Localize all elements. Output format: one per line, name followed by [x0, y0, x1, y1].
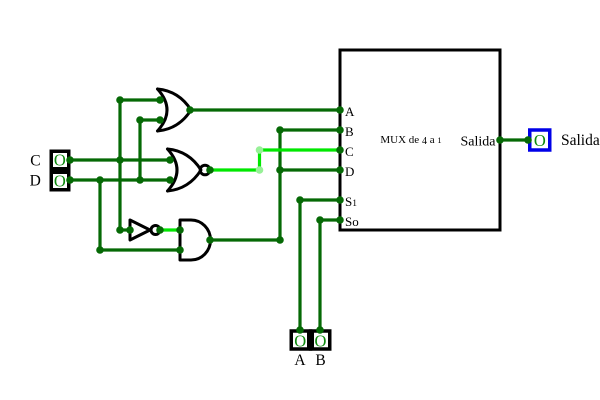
- svg-text:D: D: [30, 172, 41, 189]
- svg-text:O: O: [54, 171, 66, 190]
- svg-text:O: O: [534, 131, 546, 150]
- svg-text:O: O: [314, 331, 326, 350]
- svg-text:So: So: [345, 214, 359, 229]
- svg-text:C: C: [30, 152, 40, 169]
- svg-text:MUX de 4 a 1: MUX de 4 a 1: [380, 134, 441, 147]
- svg-text:B: B: [315, 352, 325, 369]
- svg-text:A: A: [345, 104, 355, 119]
- svg-text:B: B: [345, 124, 354, 139]
- svg-text:C: C: [345, 144, 354, 159]
- svg-text:O: O: [54, 150, 66, 169]
- svg-text:D: D: [345, 164, 354, 179]
- svg-text:Salida: Salida: [561, 132, 600, 149]
- svg-text:Salida: Salida: [461, 135, 497, 150]
- svg-text:A: A: [294, 352, 306, 369]
- svg-text:O: O: [294, 331, 306, 350]
